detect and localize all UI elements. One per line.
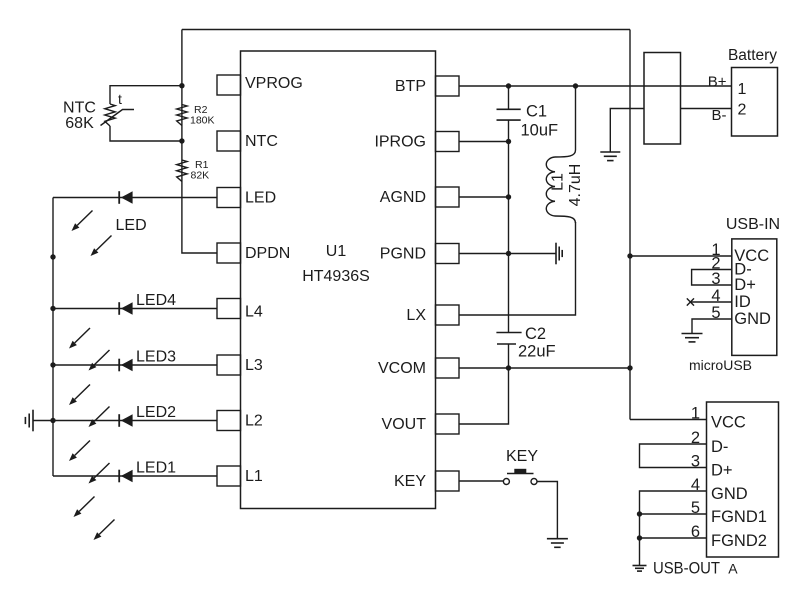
svg-text:FGND2: FGND2 xyxy=(711,532,767,550)
wire ground stub xyxy=(33,420,53,422)
wire USB-IN GND stub xyxy=(692,319,732,333)
pin box L2 xyxy=(217,411,241,431)
pin box KEY xyxy=(436,471,460,491)
svg-text:22uF: 22uF xyxy=(518,343,556,361)
pin box L3 xyxy=(217,355,241,375)
node C1 top junction xyxy=(506,83,511,88)
svg-text:LED3: LED3 xyxy=(136,349,176,366)
wire LX xyxy=(459,222,576,315)
node VCC-in junction xyxy=(627,253,632,258)
pin box L1 xyxy=(217,466,241,486)
node VCOM/C2 junction xyxy=(506,365,511,370)
svg-text:VCOM: VCOM xyxy=(378,360,426,377)
svg-text:t: t xyxy=(118,91,122,107)
svg-text:Battery: Battery xyxy=(728,47,777,64)
svg-text:USB-OUT: USB-OUT xyxy=(653,559,720,578)
svg-text:180K: 180K xyxy=(190,115,215,127)
wire to USB-OUT pin1 xyxy=(630,419,707,421)
svg-text:2: 2 xyxy=(738,102,747,119)
svg-text:L2: L2 xyxy=(245,413,263,430)
svg-text:2: 2 xyxy=(691,429,700,447)
node PGND junction xyxy=(506,251,511,256)
svg-text:DPDN: DPDN xyxy=(245,245,290,262)
svg-text:10uF: 10uF xyxy=(521,122,559,140)
svg-text:USB-IN: USB-IN xyxy=(726,216,780,233)
node bus/LED4 junction xyxy=(50,306,55,311)
arrow pair 4a xyxy=(75,441,90,456)
wire IPROG xyxy=(459,141,509,143)
svg-text:LX: LX xyxy=(406,307,426,324)
ground at KEY xyxy=(547,538,568,540)
svg-text:C2: C2 xyxy=(525,325,546,343)
svg-text:D-: D- xyxy=(711,438,728,456)
svg-text:L1: L1 xyxy=(245,468,263,485)
svg-text:A: A xyxy=(728,561,738,577)
diode LED3 xyxy=(118,359,120,372)
arrow pair 5a xyxy=(79,497,94,512)
pin box PGND xyxy=(436,244,460,264)
node VCOM/main-vertical junction xyxy=(627,365,632,370)
svg-text:LED1: LED1 xyxy=(136,460,176,477)
connector block (battery side) xyxy=(644,53,681,145)
resistor R2 180K xyxy=(177,105,187,126)
svg-text:L4: L4 xyxy=(245,304,263,321)
node bus/NTC-top junction xyxy=(179,83,184,88)
pin box DPDN xyxy=(217,243,241,263)
svg-text:U1: U1 xyxy=(326,243,347,260)
svg-text:GND: GND xyxy=(734,310,771,328)
wire LED2 row xyxy=(53,420,217,422)
svg-text:NTC: NTC xyxy=(245,133,278,150)
wire BTP / B+ rail xyxy=(459,85,732,87)
no-connect X on ID xyxy=(687,298,694,305)
wire LED cathode bus xyxy=(52,198,54,477)
svg-text:3: 3 xyxy=(711,270,720,288)
svg-text:1: 1 xyxy=(738,81,747,98)
node L1 top junction xyxy=(573,83,578,88)
node AGND junction xyxy=(506,194,511,199)
pin box VPROG xyxy=(217,75,241,95)
wire top rail xyxy=(182,29,630,31)
svg-text:FGND1: FGND1 xyxy=(711,508,767,526)
pin box VOUT xyxy=(436,414,460,434)
resistor R1 82K xyxy=(177,160,187,182)
inductor L1 4.7uH xyxy=(555,86,576,157)
pin box LED xyxy=(217,188,241,208)
svg-text:VPROG: VPROG xyxy=(245,75,303,92)
arrow pair 2a xyxy=(75,328,90,343)
connector Battery xyxy=(732,68,778,137)
node FGND1 junction xyxy=(637,511,642,516)
wire B- (left part) xyxy=(610,109,644,152)
pushbutton KEY xyxy=(503,479,509,485)
svg-text:NTC: NTC xyxy=(63,100,96,117)
wire FGND1 stub xyxy=(640,513,707,515)
svg-text:VCC: VCC xyxy=(711,414,746,432)
arrow pair 1a xyxy=(77,211,92,226)
arrow pair 3b xyxy=(94,407,109,422)
pin box LX xyxy=(436,305,460,325)
arrow pair 1b xyxy=(96,236,111,251)
svg-text:3: 3 xyxy=(691,453,700,471)
arrow pair 3a xyxy=(75,385,90,400)
svg-text:82K: 82K xyxy=(191,170,210,182)
wire LED row xyxy=(53,197,217,199)
wire AGND xyxy=(459,196,509,198)
wire PGND xyxy=(459,253,556,255)
svg-text:68K: 68K xyxy=(65,115,94,132)
diode LED xyxy=(118,191,120,204)
ground at B- xyxy=(600,151,620,153)
svg-text:C1: C1 xyxy=(526,103,547,121)
wire USB-OUT D-/D+ jumper xyxy=(640,444,707,468)
node bus/NTC-pin junction xyxy=(179,138,184,143)
diode LED1 xyxy=(118,470,120,483)
pin box L4 xyxy=(217,299,241,319)
pin box AGND xyxy=(436,187,460,207)
svg-text:D+: D+ xyxy=(711,462,733,480)
svg-text:6: 6 xyxy=(691,523,700,541)
svg-text:5: 5 xyxy=(711,304,720,322)
wire USB-OUT GND chain xyxy=(640,491,707,565)
wire FGND2 stub xyxy=(640,537,707,539)
svg-text:L1: L1 xyxy=(550,173,567,191)
svg-text:LED4: LED4 xyxy=(136,292,176,309)
svg-text:AGND: AGND xyxy=(380,189,426,206)
ground (right-rotated) at PGND xyxy=(555,243,557,265)
node bus/LED2 junction xyxy=(50,418,55,423)
svg-text:KEY: KEY xyxy=(506,448,538,465)
arrow pair 4b xyxy=(94,463,109,478)
svg-text:ID: ID xyxy=(734,293,751,311)
svg-text:LED: LED xyxy=(245,190,276,207)
diode LED2 xyxy=(118,414,120,427)
svg-text:LED2: LED2 xyxy=(136,404,176,421)
arrow pair 2b xyxy=(94,350,109,365)
svg-text:BTP: BTP xyxy=(395,78,426,95)
pin box BTP xyxy=(436,76,460,96)
wire VCOM xyxy=(459,367,630,369)
pin box VCOM xyxy=(436,358,460,378)
arrow pair 5b xyxy=(99,520,114,535)
wire LED4 row xyxy=(53,308,217,310)
svg-text:4: 4 xyxy=(711,287,720,305)
wire main right vertical xyxy=(629,30,631,420)
svg-text:D+: D+ xyxy=(734,276,756,294)
svg-text:1: 1 xyxy=(691,405,700,423)
svg-text:KEY: KEY xyxy=(394,473,426,490)
connector USB-IN xyxy=(732,239,777,356)
node IPROG junction xyxy=(506,139,511,144)
svg-text:IPROG: IPROG xyxy=(374,134,426,151)
wire USB-IN ID stub xyxy=(690,301,732,303)
op-amp U1 HT4936S body xyxy=(241,51,436,509)
svg-text:GND: GND xyxy=(711,485,748,503)
wire NTC branch bottom xyxy=(110,126,182,141)
svg-text:VOUT: VOUT xyxy=(382,416,427,433)
wire B- (right part) xyxy=(681,108,732,110)
capacitor C2 22uF xyxy=(496,332,521,334)
wire KEY xyxy=(459,480,504,482)
svg-text:B+: B+ xyxy=(708,74,727,91)
node bus junction xyxy=(50,254,55,259)
svg-text:LED: LED xyxy=(116,217,147,234)
wire left bias bus xyxy=(182,30,217,254)
svg-text:PGND: PGND xyxy=(380,246,426,263)
wire VOUT xyxy=(459,368,509,424)
wire NTC branch top xyxy=(110,86,182,104)
thermistor NTC 68K xyxy=(105,104,115,126)
svg-text:L3: L3 xyxy=(245,357,263,374)
ground at USB-IN xyxy=(682,333,703,335)
svg-text:B-: B- xyxy=(712,107,727,124)
wire USB-IN VCC xyxy=(630,255,732,257)
wire LED3 row xyxy=(53,364,217,366)
wire USB-IN D-/D+ jumper xyxy=(692,270,732,286)
node FGND2 junction xyxy=(637,535,642,540)
svg-text:4: 4 xyxy=(691,476,700,494)
svg-text:microUSB: microUSB xyxy=(689,357,752,373)
wire LED1 row xyxy=(53,475,217,477)
svg-text:5: 5 xyxy=(691,499,700,517)
pin box NTC xyxy=(217,131,241,151)
wire KEY to ground xyxy=(537,482,557,539)
capacitor C1 10uF xyxy=(508,86,510,109)
node bus/LED3 junction xyxy=(50,362,55,367)
svg-text:4.7uH: 4.7uH xyxy=(567,164,584,207)
pin box IPROG xyxy=(436,132,460,152)
svg-text:HT4936S: HT4936S xyxy=(302,268,370,285)
ground at USB-OUT xyxy=(633,565,647,567)
ground (left-rotated) xyxy=(32,410,34,432)
connector USB-OUT xyxy=(707,402,779,557)
diode LED4 xyxy=(118,302,120,315)
